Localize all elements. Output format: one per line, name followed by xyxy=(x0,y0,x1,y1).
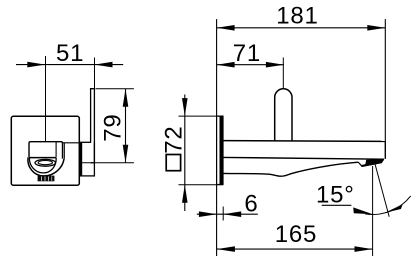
svg-text:165: 165 xyxy=(275,221,317,248)
centerline / 51-dim left extension xyxy=(45,56,47,142)
spout underside curve xyxy=(223,162,358,176)
dim 181 left arrow xyxy=(217,25,235,31)
spout cup (front view) outer body xyxy=(29,142,63,159)
dim 79 up arrow xyxy=(123,89,129,107)
spout cup inner right edge xyxy=(55,142,57,158)
dim 51 right extension xyxy=(94,58,96,89)
svg-text:72: 72 xyxy=(161,125,188,153)
dim 72 top extension xyxy=(179,115,224,117)
dim 6 right extension xyxy=(222,207,224,221)
dim 51 left arrow xyxy=(27,62,45,68)
dim 51 right arrow xyxy=(95,62,113,68)
svg-text:6: 6 xyxy=(244,191,257,218)
15deg slant line xyxy=(375,163,390,217)
svg-text:51: 51 xyxy=(56,40,84,67)
plate slab (side view) xyxy=(217,116,223,184)
dim 72 bottom extension xyxy=(179,184,224,186)
spout tip face + 181 right extension xyxy=(384,19,386,141)
svg-text:71: 71 xyxy=(233,40,261,67)
lever (side view, capsule) xyxy=(275,89,292,141)
dim 72 top arrow xyxy=(182,98,188,116)
15deg vertical reference line / 165 right extension xyxy=(372,166,374,256)
hub dark shadow band xyxy=(80,142,82,176)
spout cup outer right second line xyxy=(63,143,65,159)
lever blade (front view, edge-on) xyxy=(91,89,94,143)
svg-text:181: 181 xyxy=(276,3,318,30)
dim 71 right extension xyxy=(282,58,284,89)
dim 71 left arrow xyxy=(217,62,235,68)
dim 71 line xyxy=(217,64,284,66)
dim 165 left arrow xyxy=(217,246,235,252)
dim 181 right arrow xyxy=(367,25,385,31)
dim 6 leader line xyxy=(197,213,258,215)
spout bowl inner arc xyxy=(29,158,56,173)
dim 72 line xyxy=(184,95,186,212)
svg-text:15°: 15° xyxy=(316,182,355,209)
dim 72 bottom arrow xyxy=(182,185,188,203)
15deg arrow on arc (left) xyxy=(353,207,373,214)
blade bottom line xyxy=(91,162,95,164)
dim 79 bottom extension xyxy=(82,162,134,164)
dim 165 right arrow xyxy=(355,246,373,252)
handle shaft connector line (front view) xyxy=(63,142,80,144)
spout mid/bottom line xyxy=(223,157,384,159)
dim 71 right arrow xyxy=(266,62,284,68)
aerator thick bottom xyxy=(362,159,383,166)
aerator dark wedge xyxy=(365,159,384,166)
aerator logo blob (striped) xyxy=(38,176,55,182)
handle hub (front view, right of plate) xyxy=(80,142,95,176)
spout outlet ellipse outer xyxy=(35,159,56,166)
wall plate (front view, square escutcheon) xyxy=(11,116,79,185)
plate slab thick front face xyxy=(220,116,223,184)
dim 6 right arrow xyxy=(223,211,241,217)
15deg arrow on arc (right) xyxy=(385,204,403,213)
dim 181 line xyxy=(217,27,386,29)
15deg leader line xyxy=(322,204,352,206)
dim 79 top extension xyxy=(96,88,134,90)
spout cup waterline xyxy=(29,157,56,159)
dim 79 line xyxy=(125,89,127,163)
dim 79 down arrow xyxy=(123,145,129,163)
spout bowl outer arc xyxy=(28,157,64,176)
dim 165 line xyxy=(217,248,373,250)
dim 6 left arrow xyxy=(199,211,217,217)
spout outlet ellipse inner xyxy=(38,161,52,165)
aerator outline xyxy=(358,159,383,166)
dim 51 line xyxy=(16,64,123,66)
wall line xyxy=(216,19,218,256)
svg-text:79: 79 xyxy=(100,113,127,141)
spout top edge xyxy=(223,140,385,143)
15deg arc xyxy=(365,196,411,215)
dim 72 square symbol xyxy=(166,155,180,171)
